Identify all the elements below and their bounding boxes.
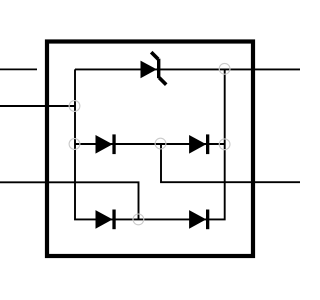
lead left lower (pin 3) with drop to bottom row [0, 182, 139, 219]
zener diode Z1 (top row) [141, 52, 167, 84]
wire: middle row drop to right exit lead [161, 144, 300, 182]
diode D2 (middle right) [189, 134, 209, 154]
diode D4 (bottom right) [189, 210, 209, 230]
diode D1 (middle left) [96, 134, 116, 154]
junction node circle (middle row x bus) [69, 139, 80, 150]
junction node circle (bottom row x pin3 drop) [133, 214, 144, 225]
junction node circle (pin2 x bus) [69, 101, 80, 112]
junction node circle (middle row x right bus) [219, 139, 230, 150]
module outline (thick box) [47, 42, 253, 257]
junction node circle (middle row x drop) [155, 138, 166, 149]
wire: left vertical bus with corners to top and bottom rows [75, 69, 225, 219]
diode D3 (bottom left) [96, 210, 116, 230]
lead left middle (pin 2) [0, 105, 75, 107]
lead stub top-left (pin 1) [0, 68, 37, 70]
wire: middle diode row [75, 143, 225, 145]
junction node circle (top row x right bus) [219, 63, 230, 74]
wire: top net (zener row, exits right) [75, 68, 300, 70]
